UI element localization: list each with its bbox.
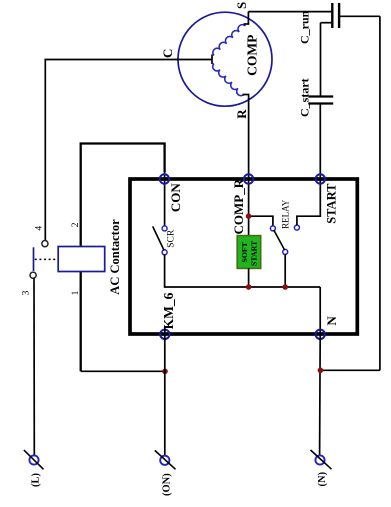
pin R tick: [243, 94, 250, 96]
svg-text:2: 2: [71, 222, 81, 227]
wire coil bottom to ON line: [81, 370, 165, 372]
contactor contact 3: [30, 272, 36, 278]
wire R to COMP_R terminal: [248, 95, 250, 180]
svg-text:3: 3: [22, 290, 32, 295]
svg-text:SCR: SCR: [167, 229, 177, 248]
wire S up: [247, 12, 249, 24]
switch SCR blade: [153, 226, 164, 250]
wire SCR to bottom rail: [165, 255, 321, 287]
relay RELAY NC contact: [270, 226, 275, 231]
junction bottom rail / relay: [282, 284, 288, 290]
junction bottom rail / COMP_R: [246, 284, 252, 290]
wire S node down to C_start: [320, 23, 322, 97]
winding run (C to R): [213, 64, 244, 96]
svg-text:C_run: C_run: [298, 10, 312, 44]
switch SCR bottom contact: [162, 250, 167, 255]
svg-text:R: R: [234, 109, 249, 119]
wire C from motor to contactor contact 4: [45, 60, 212, 241]
terminal (N) slash: [311, 450, 332, 469]
svg-text:COMP: COMP: [244, 35, 259, 76]
svg-text:C: C: [160, 49, 175, 58]
svg-text:(ON): (ON): [162, 473, 173, 496]
terminal START: [316, 174, 325, 183]
junction COMP_R node: [246, 213, 252, 219]
contactor KM coil wire from CON: [81, 144, 165, 372]
terminal (L) slash: [24, 450, 44, 469]
wire C_run right plate to right edge: [339, 15, 380, 17]
svg-text:SOFT: SOFT: [240, 241, 249, 262]
capacitor C_run left plate: [331, 3, 333, 28]
relay RELAY common contact: [283, 249, 288, 254]
relay branch wire from COMP_R node: [249, 216, 273, 226]
svg-text:AC Contactor: AC Contactor: [108, 219, 122, 295]
terminal (ON) slash: [155, 450, 176, 469]
switch SCR top contact: [162, 226, 167, 231]
winding start (C to S): [213, 25, 246, 56]
svg-text:START: START: [250, 240, 259, 266]
relay RELAY NO contact: [294, 225, 299, 230]
wire KM_6 to ON terminal: [164, 342, 166, 455]
wire right edge down: [379, 16, 381, 370]
capacitor C_start top plate: [308, 95, 333, 97]
svg-text:C_start: C_start: [298, 78, 312, 117]
svg-text:(N): (N): [317, 471, 328, 486]
wire CON terminal down to SCR: [164, 172, 166, 226]
junction ON line: [162, 369, 168, 375]
svg-text:RELAY: RELAY: [281, 199, 291, 229]
contactor KM coil box: [58, 247, 104, 272]
wire C_start to START terminal: [319, 104, 321, 180]
wire S to C_run left plate: [248, 11, 332, 13]
contactor linkage dashed: [35, 258, 58, 260]
terminal (L): [29, 455, 38, 464]
svg-text:(L): (L): [31, 473, 42, 488]
node C center tap tick: [211, 55, 213, 65]
wire N terminal down: [319, 334, 322, 454]
terminal KM_6: [160, 330, 169, 339]
wire START terminal to relay NO contact: [297, 179, 320, 225]
svg-text:COMP_R: COMP_R: [231, 178, 246, 234]
terminal N: [316, 330, 325, 339]
wire bottom rail down to N terminal: [319, 287, 321, 334]
capacitor C_start bottom plate: [308, 102, 333, 104]
terminal CON: [160, 174, 169, 183]
soft starter module box: [130, 179, 357, 334]
motor compressor COMP circle: [178, 12, 272, 106]
junction N line right edge: [318, 368, 324, 374]
wire C_run left plate stub to C_start branch: [321, 22, 333, 24]
relay RELAY blade: [274, 230, 285, 250]
terminal (N): [315, 455, 324, 464]
contactor contact 4: [42, 241, 48, 247]
module U1 SOFT START box: [237, 236, 261, 269]
wire COMP_R terminal down: [248, 179, 250, 236]
svg-text:4: 4: [35, 226, 45, 231]
wire contact 3 to L terminal: [33, 279, 35, 456]
terminal (ON): [160, 456, 169, 465]
capacitor C_run right plate: [338, 3, 340, 28]
svg-text:START: START: [325, 183, 339, 224]
terminal KM_6 cross stub: [164, 327, 166, 342]
svg-text:S: S: [234, 2, 249, 9]
wire right edge return to N line: [320, 369, 380, 371]
contactor blade: [33, 247, 35, 271]
terminal COMP_R: [244, 174, 253, 183]
pin S tick: [244, 23, 250, 25]
svg-text:1: 1: [71, 290, 81, 295]
wire relay common to bottom rail: [284, 254, 286, 287]
svg-text:KM_6: KM_6: [161, 292, 176, 329]
wire soft start box to bottom rail: [248, 268, 250, 287]
svg-text:CON: CON: [168, 183, 183, 213]
svg-text:N: N: [324, 316, 339, 326]
